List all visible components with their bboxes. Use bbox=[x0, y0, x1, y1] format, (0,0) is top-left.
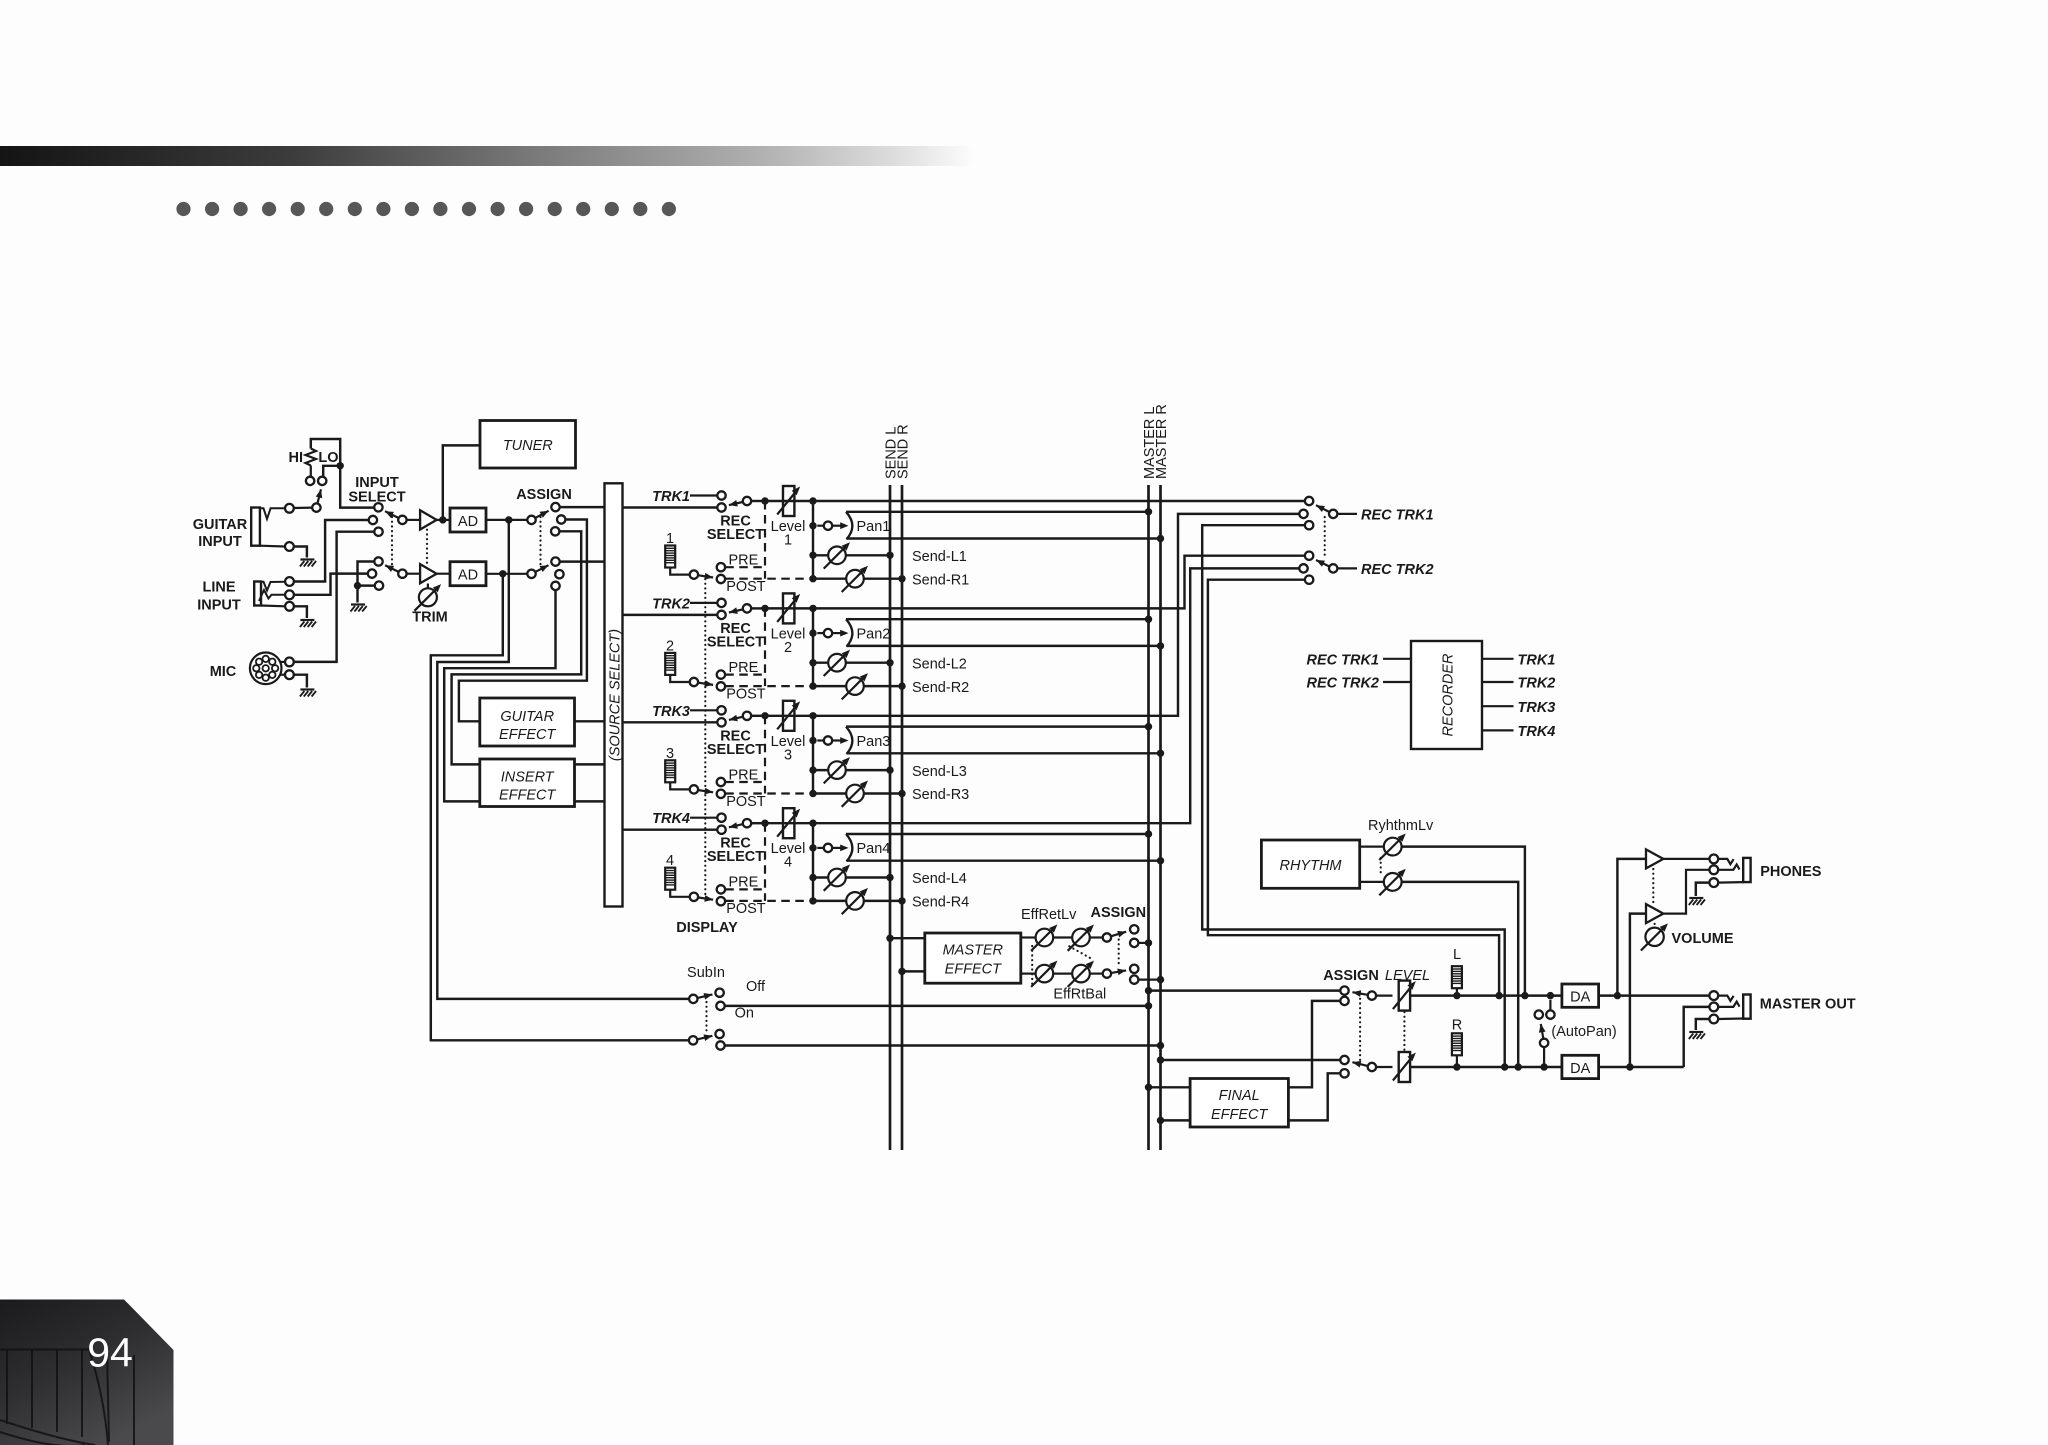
wire trk2 out bbox=[1482, 681, 1514, 683]
guitar input jack J1 bbox=[251, 508, 260, 546]
node phones L tap bbox=[1614, 992, 1621, 999]
svg-text:PRE: PRE bbox=[729, 875, 759, 891]
wire rec trk1 in bbox=[1383, 658, 1411, 660]
svg-text:GUITAR: GUITAR bbox=[500, 709, 554, 725]
wire master effect assign L -> master L bbox=[1138, 942, 1148, 944]
svg-text:INPUT: INPUT bbox=[198, 534, 242, 550]
gang link amps TRIM bbox=[426, 530, 428, 564]
svg-text:Pan2: Pan2 bbox=[857, 626, 891, 642]
wire AD1 out bbox=[486, 519, 527, 521]
wire source select -> REC SELECT 2 bbox=[623, 614, 718, 616]
svg-text:4: 4 bbox=[784, 855, 792, 871]
switch REC SELECT 4 bbox=[717, 814, 725, 822]
rhythm level knob R bbox=[1360, 881, 1385, 883]
svg-text:PRE: PRE bbox=[729, 767, 759, 783]
wire rhythm L -> master out L bbox=[1402, 847, 1525, 996]
wire source select -> REC SELECT 3 bbox=[623, 721, 718, 723]
send level knob R1 bbox=[809, 575, 816, 582]
svg-text:EffRetLv: EffRetLv bbox=[1021, 907, 1077, 923]
svg-text:TRK2: TRK2 bbox=[652, 596, 690, 612]
svg-text:Send-R3: Send-R3 bbox=[912, 787, 969, 803]
svg-text:RECORDER: RECORDER bbox=[1440, 653, 1456, 737]
svg-text:SELECT: SELECT bbox=[707, 742, 764, 758]
net MASTER L bus bbox=[1147, 485, 1150, 1150]
svg-text:TRK1: TRK1 bbox=[652, 489, 690, 505]
svg-text:LINE: LINE bbox=[202, 580, 235, 596]
net SEND L bus bbox=[889, 485, 892, 1150]
send level knob R2 bbox=[809, 682, 816, 689]
svg-text:AD: AD bbox=[458, 514, 478, 530]
wire assign1 T2 -> guitar effect bbox=[459, 520, 587, 722]
svg-text:TRK2: TRK2 bbox=[1518, 676, 1556, 692]
wire mic -> input select T3 bbox=[294, 532, 375, 662]
wire pan3 R -> master R bbox=[847, 752, 1161, 754]
final effect box bbox=[1190, 1079, 1288, 1128]
send level knob R4 bbox=[809, 897, 816, 904]
gang link rec trk bbox=[1324, 517, 1326, 558]
node phones R tap bbox=[1626, 1063, 1633, 1070]
wire master R post -> REC TRK1 T3 bbox=[1202, 525, 1505, 1067]
svg-text:REC TRK2: REC TRK2 bbox=[1361, 562, 1434, 578]
gang link assign bbox=[539, 517, 541, 568]
master effect box bbox=[925, 933, 1021, 983]
svg-text:TRK3: TRK3 bbox=[1518, 700, 1556, 716]
svg-text:SubIn: SubIn bbox=[687, 965, 725, 981]
wire pan3 L -> master L bbox=[846, 725, 1149, 727]
svg-text:MASTER R: MASTER R bbox=[1154, 404, 1170, 479]
level fader 1 bbox=[783, 486, 794, 516]
switch PRE/POST 4 bbox=[690, 893, 698, 901]
wire TRK1 row line bbox=[751, 500, 765, 502]
wire line tip -> input select T2 bbox=[294, 520, 369, 582]
wire master L -> final effect bbox=[1145, 1084, 1152, 1091]
svg-text:POST: POST bbox=[726, 579, 766, 595]
svg-text:LO: LO bbox=[318, 450, 338, 466]
svg-text:DISPLAY: DISPLAY bbox=[676, 920, 738, 936]
send level knob R3 bbox=[809, 790, 816, 797]
wire TRK2 row line bbox=[751, 607, 765, 609]
rhythm level knob L bbox=[1360, 845, 1385, 847]
wire final effect R out bbox=[1288, 1073, 1340, 1120]
gang link rhythm knobs bbox=[1380, 858, 1382, 874]
svg-text:TRK4: TRK4 bbox=[652, 811, 690, 827]
wire L out line bbox=[1410, 994, 1562, 996]
gang link out levels bbox=[1403, 1012, 1405, 1051]
wire R out line bbox=[1410, 1066, 1562, 1068]
wire post fader vertical 3 bbox=[812, 716, 814, 794]
svg-text:GUITAR: GUITAR bbox=[193, 517, 248, 533]
node level in 3 bbox=[761, 712, 768, 719]
wire R -> phones amp bbox=[1630, 914, 1646, 1067]
rhythm box bbox=[1261, 840, 1359, 888]
header dot row bbox=[176, 202, 190, 216]
node LO branch bbox=[337, 462, 344, 469]
send level knob L1 bbox=[809, 552, 816, 559]
tuner bbox=[480, 421, 576, 469]
svg-text:Pan3: Pan3 bbox=[857, 734, 891, 750]
svg-text:Pan1: Pan1 bbox=[857, 519, 891, 535]
node level in 1 bbox=[761, 497, 768, 504]
op-amp input 2 bbox=[407, 573, 420, 575]
page number badge bbox=[0, 1300, 174, 1445]
wire trk3 out bbox=[1482, 705, 1514, 707]
switch PRE/POST 2 bbox=[690, 678, 698, 686]
svg-text:(AutoPan): (AutoPan) bbox=[1551, 1024, 1616, 1040]
node level out 4 bbox=[809, 820, 816, 827]
pan pot Pan1 bbox=[809, 522, 816, 529]
svg-text:INSERT: INSERT bbox=[501, 770, 555, 786]
gang link display bbox=[704, 579, 706, 898]
recorder bbox=[1411, 641, 1482, 749]
switch master effect assign R bbox=[1103, 969, 1111, 977]
net MASTER R bus bbox=[1159, 485, 1162, 1150]
gang link master effect assign bbox=[1118, 940, 1120, 968]
phones amp L bbox=[1646, 849, 1663, 868]
svg-text:Pan4: Pan4 bbox=[857, 841, 891, 857]
wire rec trk2 in bbox=[1383, 681, 1411, 683]
wire TRK2 line -> REC TRK2 T1 bbox=[765, 556, 1305, 609]
wire source select -> REC SELECT 1 bbox=[623, 506, 718, 508]
svg-text:PHONES: PHONES bbox=[1760, 864, 1822, 880]
top gradient bar bbox=[0, 146, 975, 166]
svg-text:INPUT: INPUT bbox=[197, 598, 241, 614]
gang link eff bal knobs bbox=[1069, 946, 1093, 959]
wire assign1 T3 -> insert effect top bbox=[452, 531, 582, 764]
gang link eff ret knobs bbox=[1031, 946, 1033, 986]
svg-text:SELECT: SELECT bbox=[707, 527, 764, 543]
svg-text:Send-L2: Send-L2 bbox=[912, 656, 967, 672]
wire subin2 -> master R bbox=[725, 1044, 1161, 1046]
wire pan4 R -> master R bbox=[847, 859, 1161, 861]
wire guitar effect out bbox=[575, 720, 605, 722]
node level in 4 bbox=[761, 820, 768, 827]
wire master R -> final effect bbox=[1157, 1117, 1164, 1124]
wire master R -> out assign R bbox=[1157, 1056, 1164, 1063]
svg-text:EFFECT: EFFECT bbox=[1211, 1107, 1269, 1123]
svg-text:REC TRK1: REC TRK1 bbox=[1306, 653, 1379, 669]
op-amp input 1 bbox=[407, 519, 420, 521]
wire master L -> out assign bbox=[1145, 987, 1152, 994]
switch REC TRK1 bbox=[1305, 497, 1313, 505]
ground input select bbox=[351, 603, 365, 605]
DA converter R bbox=[1562, 1055, 1599, 1078]
wire AD2 out bbox=[486, 573, 527, 575]
switch out assign L bbox=[1340, 986, 1348, 994]
svg-text:TRK3: TRK3 bbox=[652, 704, 690, 720]
wire L -> phones amp bbox=[1617, 859, 1646, 996]
wire post fader vertical 1 bbox=[812, 501, 814, 579]
svg-text:Send-R4: Send-R4 bbox=[912, 895, 969, 911]
svg-text:POST: POST bbox=[726, 794, 766, 810]
out level fader R bbox=[1376, 1066, 1392, 1068]
send level knob L3 bbox=[809, 766, 816, 773]
wire send R -> master effect bbox=[898, 968, 905, 975]
send level knob L4 bbox=[809, 874, 816, 881]
AD converter 1 bbox=[450, 508, 486, 532]
wire subin1 -> master L bbox=[725, 1005, 1149, 1007]
svg-text:Send-R1: Send-R1 bbox=[912, 572, 969, 588]
svg-text:EFFECT: EFFECT bbox=[499, 788, 557, 804]
switch REC TRK2 bbox=[1305, 552, 1313, 560]
switch PRE/POST 1 bbox=[690, 570, 698, 578]
wire to tuner bbox=[443, 445, 480, 520]
dashed rec-select link 4 bbox=[764, 823, 766, 901]
svg-text:ASSIGN: ASSIGN bbox=[516, 487, 572, 503]
wire master effect assign R -> master R bbox=[1138, 978, 1160, 980]
gang link input select bbox=[391, 517, 393, 568]
wire pan2 R -> master R bbox=[847, 645, 1161, 647]
svg-text:L: L bbox=[1453, 947, 1461, 963]
svg-text:REC TRK2: REC TRK2 bbox=[1306, 676, 1379, 692]
node level out 2 bbox=[809, 605, 816, 612]
switch ASSIGN 1 bbox=[527, 516, 535, 524]
svg-text:DA: DA bbox=[1570, 990, 1590, 1006]
svg-text:DA: DA bbox=[1570, 1061, 1590, 1077]
wire rhythm R -> master out R bbox=[1402, 882, 1519, 1067]
svg-text:PRE: PRE bbox=[729, 553, 759, 569]
node level out 3 bbox=[809, 712, 816, 719]
switch PRE/POST 3 bbox=[690, 785, 698, 793]
mic connector bbox=[250, 653, 282, 685]
svg-text:TUNER: TUNER bbox=[503, 438, 553, 454]
switch INPUT SELECT lower bbox=[374, 557, 382, 565]
wire TRK3 line -> REC TRK1 T2 bbox=[765, 514, 1299, 716]
svg-text:SEND R: SEND R bbox=[896, 424, 912, 479]
switch HI/LO select bbox=[312, 503, 320, 511]
switch REC SELECT 3 bbox=[717, 706, 725, 714]
svg-text:EFFECT: EFFECT bbox=[945, 962, 1003, 978]
switch master effect assign L bbox=[1103, 933, 1111, 941]
pan pot Pan2 bbox=[809, 629, 816, 636]
phones amp R bbox=[1646, 904, 1663, 923]
wire source select -> REC SELECT 4 bbox=[623, 828, 718, 830]
wire pan4 L -> master L bbox=[846, 833, 1149, 835]
ground line sleeve bbox=[300, 619, 314, 621]
svg-text:3: 3 bbox=[784, 747, 792, 763]
node autopan L tap bbox=[1547, 992, 1554, 999]
level fader 2 bbox=[783, 593, 794, 623]
node AD1 junction bbox=[505, 516, 512, 523]
level fader 4 bbox=[783, 808, 794, 838]
gang link subin bbox=[705, 1002, 707, 1032]
svg-text:POST: POST bbox=[726, 686, 766, 702]
switch REC SELECT 2 bbox=[717, 599, 725, 607]
svg-text:On: On bbox=[735, 1006, 754, 1022]
wire pan2 L -> master L bbox=[846, 618, 1149, 620]
wire DA L -> master out tip bbox=[1599, 994, 1710, 996]
node AD2 junction bbox=[499, 570, 506, 577]
svg-text:1: 1 bbox=[784, 533, 792, 549]
gang link phones amps bbox=[1652, 869, 1654, 904]
switch INPUT SELECT upper bbox=[374, 503, 382, 511]
svg-text:REC TRK1: REC TRK1 bbox=[1361, 508, 1434, 524]
ground guitar sleeve bbox=[300, 558, 314, 560]
wire trk1 out bbox=[1482, 658, 1514, 660]
wire insert effect outs bbox=[575, 763, 605, 765]
wire pan1 L -> master L bbox=[846, 511, 1149, 513]
dashed rec-select link 1 bbox=[764, 501, 766, 579]
send level knob L2 bbox=[809, 659, 816, 666]
switch REC SELECT 1 bbox=[717, 491, 725, 499]
wire line ring -> input select lower T2 bbox=[294, 574, 368, 595]
wire TRK3 row line bbox=[751, 715, 765, 717]
svg-text:SELECT: SELECT bbox=[707, 634, 764, 650]
svg-text:Send-L4: Send-L4 bbox=[912, 871, 967, 887]
master out jack bbox=[1709, 991, 1718, 1000]
trim knob bbox=[414, 588, 437, 611]
source select box bbox=[605, 483, 623, 906]
svg-text:FINAL: FINAL bbox=[1219, 1088, 1260, 1104]
svg-text:Send-L1: Send-L1 bbox=[912, 549, 967, 565]
svg-text:2: 2 bbox=[784, 640, 792, 656]
pan pot Pan3 bbox=[809, 737, 816, 744]
autopan switch bbox=[1549, 1000, 1551, 1011]
eff return balance knob L bbox=[1053, 936, 1072, 938]
ground phones bbox=[1689, 897, 1703, 899]
wire DA R -> master out ring bbox=[1599, 1066, 1684, 1068]
svg-text:Off: Off bbox=[746, 979, 766, 995]
wire master L post -> REC TRK2 T3 bbox=[1208, 580, 1499, 996]
wire send L -> master effect bbox=[886, 935, 893, 942]
wire AD2 -> subin 2 bbox=[431, 574, 689, 1041]
svg-text:AD: AD bbox=[458, 568, 478, 584]
svg-text:RyhthmLv: RyhthmLv bbox=[1368, 818, 1434, 834]
wire TRK1 line -> REC TRK1 T1 bbox=[765, 500, 1305, 502]
wire trk4 out bbox=[1482, 729, 1514, 731]
svg-text:(SOURCE SELECT): (SOURCE SELECT) bbox=[608, 629, 624, 761]
guitar effect bbox=[480, 698, 575, 746]
svg-text:ASSIGN: ASSIGN bbox=[1091, 905, 1147, 921]
svg-text:MASTER: MASTER bbox=[943, 943, 1004, 959]
line input jack J2 bbox=[254, 582, 261, 606]
node level in 2 bbox=[761, 605, 768, 612]
svg-text:TRK1: TRK1 bbox=[1518, 653, 1556, 669]
wire assign1 T1 -> source select bbox=[560, 506, 605, 508]
svg-text:TRK4: TRK4 bbox=[1518, 724, 1556, 740]
net SEND R bus bbox=[901, 485, 904, 1150]
switch out assign R bbox=[1340, 1056, 1348, 1064]
insert effect bbox=[480, 759, 575, 807]
svg-text:ASSIGN: ASSIGN bbox=[1323, 968, 1379, 984]
eff return balance knob R bbox=[1053, 972, 1072, 974]
wire final effect L out bbox=[1288, 1001, 1340, 1087]
ground mic bbox=[300, 688, 314, 690]
out level fader L bbox=[1376, 994, 1392, 996]
svg-text:SELECT: SELECT bbox=[707, 849, 764, 865]
switch SubIn 2 bbox=[689, 1036, 697, 1044]
wire TRK4 line -> REC TRK2 T2 bbox=[765, 568, 1299, 823]
wire post fader vertical 4 bbox=[812, 823, 814, 901]
svg-text:MIC: MIC bbox=[210, 664, 237, 680]
dashed rec-select link 2 bbox=[764, 608, 766, 686]
wire AD1 -> subin 1 bbox=[437, 520, 689, 999]
wire lower T1/T3 to ground bbox=[358, 562, 375, 586]
switch ASSIGN 2 bbox=[527, 570, 535, 578]
volume knob bbox=[1641, 927, 1664, 950]
wire assign2 T1 -> source select bbox=[560, 560, 605, 562]
wire post fader vertical 2 bbox=[812, 608, 814, 686]
svg-text:EffRtBal: EffRtBal bbox=[1053, 987, 1106, 1003]
pan pot Pan4 bbox=[809, 844, 816, 851]
wire pan1 R -> master R bbox=[847, 537, 1161, 539]
DA converter L bbox=[1562, 984, 1599, 1007]
svg-text:94: 94 bbox=[87, 1330, 133, 1376]
gang link out assign bbox=[1359, 994, 1361, 1061]
wire TRK4 row line bbox=[751, 822, 765, 824]
svg-text:POST: POST bbox=[726, 901, 766, 917]
svg-text:VOLUME: VOLUME bbox=[1672, 931, 1734, 947]
svg-text:EFFECT: EFFECT bbox=[499, 727, 557, 743]
resistor HI/LO pad bbox=[311, 439, 340, 466]
node tuner tap bbox=[439, 516, 446, 523]
phones jack bbox=[1709, 855, 1718, 864]
svg-text:TRIM: TRIM bbox=[412, 610, 447, 626]
eff return level knob R bbox=[1021, 972, 1036, 974]
svg-text:Send-R2: Send-R2 bbox=[912, 680, 969, 696]
ground master out bbox=[1689, 1031, 1703, 1033]
level fader 3 bbox=[783, 701, 794, 731]
svg-text:RHYTHM: RHYTHM bbox=[1279, 858, 1342, 874]
svg-text:HI: HI bbox=[289, 450, 304, 466]
node level out 1 bbox=[809, 497, 816, 504]
dashed rec-select link 3 bbox=[764, 716, 766, 794]
svg-text:R: R bbox=[1452, 1018, 1462, 1034]
svg-text:MASTER OUT: MASTER OUT bbox=[1760, 997, 1856, 1013]
wire assign2 T3 -> insert effect bottom bbox=[444, 590, 555, 801]
svg-text:Send-L3: Send-L3 bbox=[912, 764, 967, 780]
AD converter 2 bbox=[450, 562, 486, 586]
eff return level knob L bbox=[1021, 936, 1036, 938]
